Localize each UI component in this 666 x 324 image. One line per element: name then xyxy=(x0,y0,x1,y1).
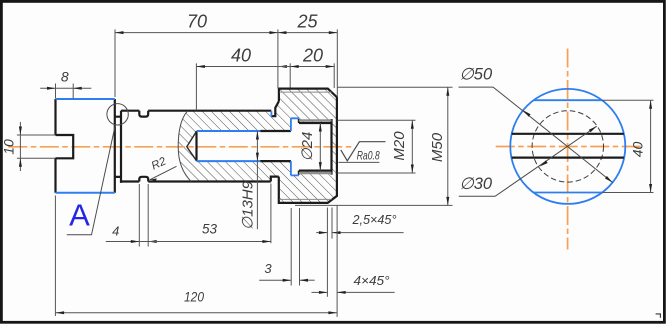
label A (blue) xyxy=(69,198,90,233)
svg-text:∅30: ∅30 xyxy=(459,175,493,193)
screwdriver slot in head xyxy=(56,135,74,158)
svg-text:M20: M20 xyxy=(391,131,408,161)
hole edges (black part) xyxy=(260,131,291,161)
svg-text:4: 4 xyxy=(112,224,119,239)
svg-text:∅24: ∅24 xyxy=(299,132,316,162)
svg-text:120: 120 xyxy=(184,289,204,305)
svg-text:Ra0.8: Ra0.8 xyxy=(357,149,380,163)
svg-text:4×45°: 4×45° xyxy=(354,273,390,288)
M50 collar outline xyxy=(279,89,337,203)
dimension M50 xyxy=(295,87,453,205)
right view: flats chords (blue) xyxy=(534,100,602,192)
svg-text:R2: R2 xyxy=(150,155,169,172)
dimension 70 xyxy=(115,12,278,98)
dimension Ø24 xyxy=(299,123,322,171)
svg-text:2,5×45°: 2,5×45° xyxy=(352,212,397,227)
svg-text:10: 10 xyxy=(1,139,17,155)
slot extension lines for dim 10 xyxy=(17,135,56,158)
svg-text:25: 25 xyxy=(296,12,318,32)
right view: slot edges xyxy=(512,134,624,158)
counterbore Ø24 left wall and stubs (blue) xyxy=(291,118,299,175)
dimension M20 xyxy=(338,120,416,173)
svg-text:20: 20 xyxy=(302,46,323,66)
svg-text:3: 3 xyxy=(264,261,272,276)
right view: dashed circle Ø30 xyxy=(532,111,603,182)
head outline (black faces) xyxy=(56,99,115,193)
detail A leader xyxy=(67,125,116,235)
head bottom edge (blue) xyxy=(56,192,115,194)
right view: blue circle Ø50 xyxy=(510,89,625,204)
dimension Ø13H9 leader and arrows xyxy=(240,131,259,230)
svg-text:∅13Н9: ∅13Н9 xyxy=(240,180,257,230)
M20 thread bore lines (thick) xyxy=(299,119,332,175)
detail A circle xyxy=(107,104,128,125)
blue step segment at shaft end xyxy=(270,111,272,116)
svg-text:40: 40 xyxy=(630,142,646,158)
head top edge (blue) xyxy=(56,98,115,100)
dimension 53 xyxy=(148,184,271,244)
dimension Ø50 diagonal xyxy=(459,66,613,183)
dimension Ø30 diagonal xyxy=(459,126,597,196)
svg-text:M50: M50 xyxy=(429,132,446,162)
shaft top and bottom edges xyxy=(121,111,271,182)
surface finish symbol Ra0.8 xyxy=(339,142,386,163)
dimension 20 xyxy=(278,46,334,89)
dimension 10 xyxy=(1,122,22,171)
dimension 120 xyxy=(55,196,337,317)
R2 groove in shaft xyxy=(139,111,148,182)
dimension 2,5x45 xyxy=(316,208,403,297)
hatch fill: sectioned areas of shaft and collar xyxy=(178,89,337,203)
dimension 8 xyxy=(40,69,91,99)
neck undercut next to head xyxy=(115,111,121,183)
dimension 3 (counterbore depth) xyxy=(259,208,315,286)
dimension 4 (groove width) xyxy=(106,184,157,247)
drill cone point xyxy=(187,131,197,160)
orange centerline: main axis left view xyxy=(8,146,354,148)
dimension 40 (hole depth) xyxy=(196,46,287,111)
svg-text:70: 70 xyxy=(187,12,207,32)
svg-text:∅50: ∅50 xyxy=(459,66,493,84)
section break wavy line xyxy=(178,111,191,182)
svg-text:A: A xyxy=(69,198,90,233)
svg-text:8: 8 xyxy=(61,69,69,85)
dimension 25 xyxy=(278,12,337,97)
frame corner mark bottom-right xyxy=(656,314,661,318)
dimension 40 (right view) xyxy=(602,100,654,192)
shaft end undercut at collar (top) xyxy=(271,101,279,181)
svg-text:53: 53 xyxy=(202,222,218,237)
M50 thread root thin lines xyxy=(280,92,332,199)
hole Ø13H9 edges (blue part) xyxy=(197,131,261,161)
orange centerline: right view horizontal xyxy=(496,146,641,148)
svg-text:40: 40 xyxy=(231,46,251,66)
orange centerline: right view vertical xyxy=(567,49,569,250)
R2 leader xyxy=(150,155,177,181)
M20 thread crest lines (gray) xyxy=(299,120,332,173)
dimension 4x45 xyxy=(312,206,395,317)
hole end face xyxy=(195,131,197,161)
